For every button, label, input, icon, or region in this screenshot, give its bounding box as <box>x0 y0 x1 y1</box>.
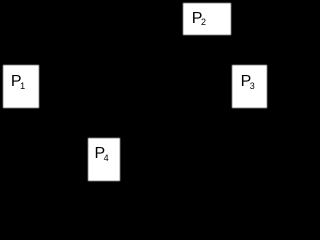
label P1 <box>11 74 25 90</box>
place P3 <box>232 65 267 108</box>
place P1 <box>3 65 39 108</box>
label P2 <box>192 11 206 27</box>
label P3 <box>241 74 255 90</box>
place P4 <box>88 138 120 181</box>
place P2 <box>183 3 231 35</box>
label P4 <box>95 146 109 162</box>
